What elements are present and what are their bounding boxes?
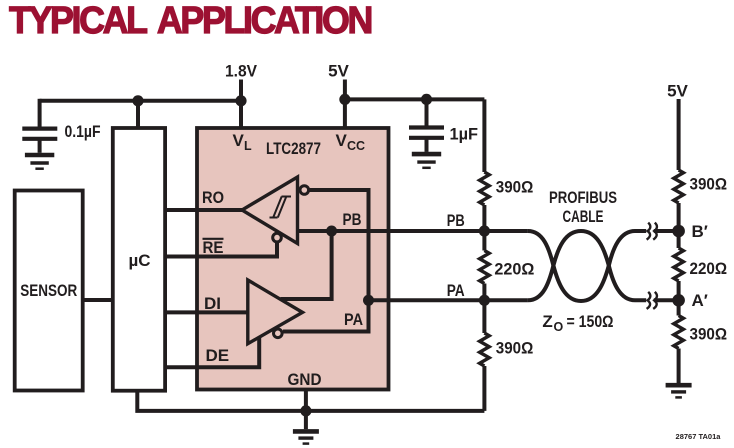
wire: 5V rail to right: [345, 97, 485, 101]
ground below C2: [412, 154, 441, 168]
node: PA termination junction: [479, 295, 490, 306]
svg-text:RO: RO: [202, 188, 224, 207]
resistor R6 390ohm: [674, 316, 684, 349]
wire: RO from uC to receiver output: [165, 208, 243, 212]
receiver inverting input bubble: [300, 186, 309, 195]
svg-text:1.8V: 1.8V: [225, 62, 258, 81]
svg-text:TYPICAL APPLICATION: TYPICAL APPLICATION: [9, 0, 371, 42]
wire: stub from 1.8V rail down to capacitor C1: [38, 99, 42, 127]
svg-text:A′: A′: [692, 291, 708, 310]
svg-text:Z: Z: [542, 312, 552, 331]
break symbol on B wire: [647, 223, 657, 240]
wire: 5V stub down to VCC pin: [343, 80, 347, 129]
node: junction dot uC supply: [132, 95, 143, 106]
wire: twisted pair PB conductor: [528, 231, 646, 301]
hysteresis symbol inside receiver: [270, 197, 292, 218]
wire: A wire to terminator: [654, 298, 679, 302]
IC U1 LTC2877 body: [197, 128, 389, 390]
wire: right terminator rail top: [677, 99, 681, 170]
wire: GND stub below chip: [304, 390, 308, 430]
capacitor C2 1uF plates: [409, 128, 444, 152]
ground symbol right terminator: [666, 385, 692, 397]
uC box: [113, 128, 165, 391]
node: PB termination junction: [479, 225, 490, 236]
svg-text:390Ω: 390Ω: [496, 177, 534, 196]
wire: PB line from receiver input out of chip: [298, 229, 528, 233]
break symbol on A wire: [647, 292, 657, 309]
wire: 1.8V stub down to VL pin: [239, 80, 243, 129]
svg-text:PROFIBUS: PROFIBUS: [549, 188, 617, 207]
node: A terminator junction: [672, 294, 685, 307]
wire: DE from uC up to driver enable: [165, 337, 259, 367]
svg-text:CABLE: CABLE: [563, 207, 604, 226]
node: B terminator junction: [672, 225, 685, 238]
node: PA junction dot inside chip: [363, 295, 374, 306]
svg-text:0.1µF: 0.1µF: [65, 122, 101, 141]
driver inverting output bubble: [274, 329, 283, 338]
svg-text:LTC2877: LTC2877: [266, 139, 321, 158]
svg-text:390Ω: 390Ω: [690, 174, 728, 193]
svg-text:28767 TA01a: 28767 TA01a: [676, 432, 722, 441]
wire: rail between R5 and R6: [677, 281, 681, 316]
svg-text:PB: PB: [447, 211, 465, 230]
wire: RE from uC up to receiver enable bubble: [165, 242, 277, 257]
svg-text:= 150Ω: = 150Ω: [567, 312, 614, 331]
wire: stub down to uC top: [136, 101, 140, 128]
resistor R5 220ohm: [674, 248, 684, 281]
resistor R3 390ohm: [480, 333, 490, 366]
receiver enable bubble: [273, 233, 282, 242]
node: junction dot at C2: [421, 94, 432, 105]
wire: rail bottom to ground: [677, 349, 681, 384]
resistor R1 390ohm: [480, 172, 490, 205]
wire: twisted pair PA conductor: [528, 231, 646, 300]
svg-text:390Ω: 390Ω: [690, 324, 728, 343]
svg-text:DE: DE: [206, 346, 230, 365]
svg-text:5V: 5V: [328, 62, 349, 81]
wire: rail R4 to A: [677, 203, 681, 248]
wire: DI from uC to driver input: [165, 310, 248, 314]
wire: stub down to capacitor C2: [425, 99, 429, 125]
svg-text:PA: PA: [344, 310, 363, 329]
svg-text:SENSOR: SENSOR: [20, 281, 77, 300]
svg-text:PB: PB: [343, 210, 362, 229]
ground below C1: [25, 155, 54, 169]
wire: rail between R2 and R3: [482, 284, 486, 334]
driver amplifier triangle: [248, 280, 303, 344]
wire: SENSOR to uC: [83, 298, 113, 302]
wire: rail between R1 and PB: [482, 205, 486, 251]
node: PB junction dot inside chip: [326, 226, 337, 237]
svg-text:DI: DI: [204, 294, 221, 313]
wire: from PB dot down to driver output edge: [281, 231, 332, 299]
resistor R2 220ohm: [480, 251, 490, 284]
wire: PA line out of chip: [369, 298, 528, 302]
svg-text:220Ω: 220Ω: [494, 260, 534, 279]
wire: B wire to terminator: [654, 229, 679, 233]
SENSOR box: [15, 191, 83, 391]
svg-text:RE: RE: [203, 238, 224, 257]
wire: bottom ground bus: [137, 391, 484, 411]
svg-text:O: O: [554, 320, 564, 334]
svg-text:PA: PA: [447, 281, 465, 300]
svg-text:B′: B′: [692, 222, 708, 241]
svg-text:V: V: [233, 131, 245, 150]
resistor R4 390ohm: [674, 170, 684, 203]
wire: 1.8V top rail horizontal: [40, 99, 241, 103]
svg-text:1µF: 1µF: [450, 125, 479, 144]
node: GND junction dot: [300, 405, 311, 416]
svg-text:220Ω: 220Ω: [690, 259, 728, 278]
wire: rail bottom down to ground bus: [482, 366, 486, 411]
op-amp: receiver triangle: [242, 177, 298, 244]
svg-text:V: V: [336, 131, 348, 150]
svg-text:CC: CC: [347, 139, 365, 153]
svg-text:L: L: [244, 139, 252, 153]
svg-text:5V: 5V: [667, 82, 688, 101]
node: junction dot at VCC: [339, 94, 350, 105]
ground symbol below chip: [293, 431, 319, 443]
svg-text:GND: GND: [288, 370, 322, 389]
capacitor C1 0.1uF plates: [22, 129, 57, 153]
wire: receiver inverting input over to PA vertical: [283, 190, 369, 332]
svg-text:µC: µC: [128, 251, 150, 270]
wire: right rail top section: [482, 99, 486, 172]
svg-text:390Ω: 390Ω: [496, 338, 534, 357]
node: junction dot at VL: [235, 95, 246, 106]
